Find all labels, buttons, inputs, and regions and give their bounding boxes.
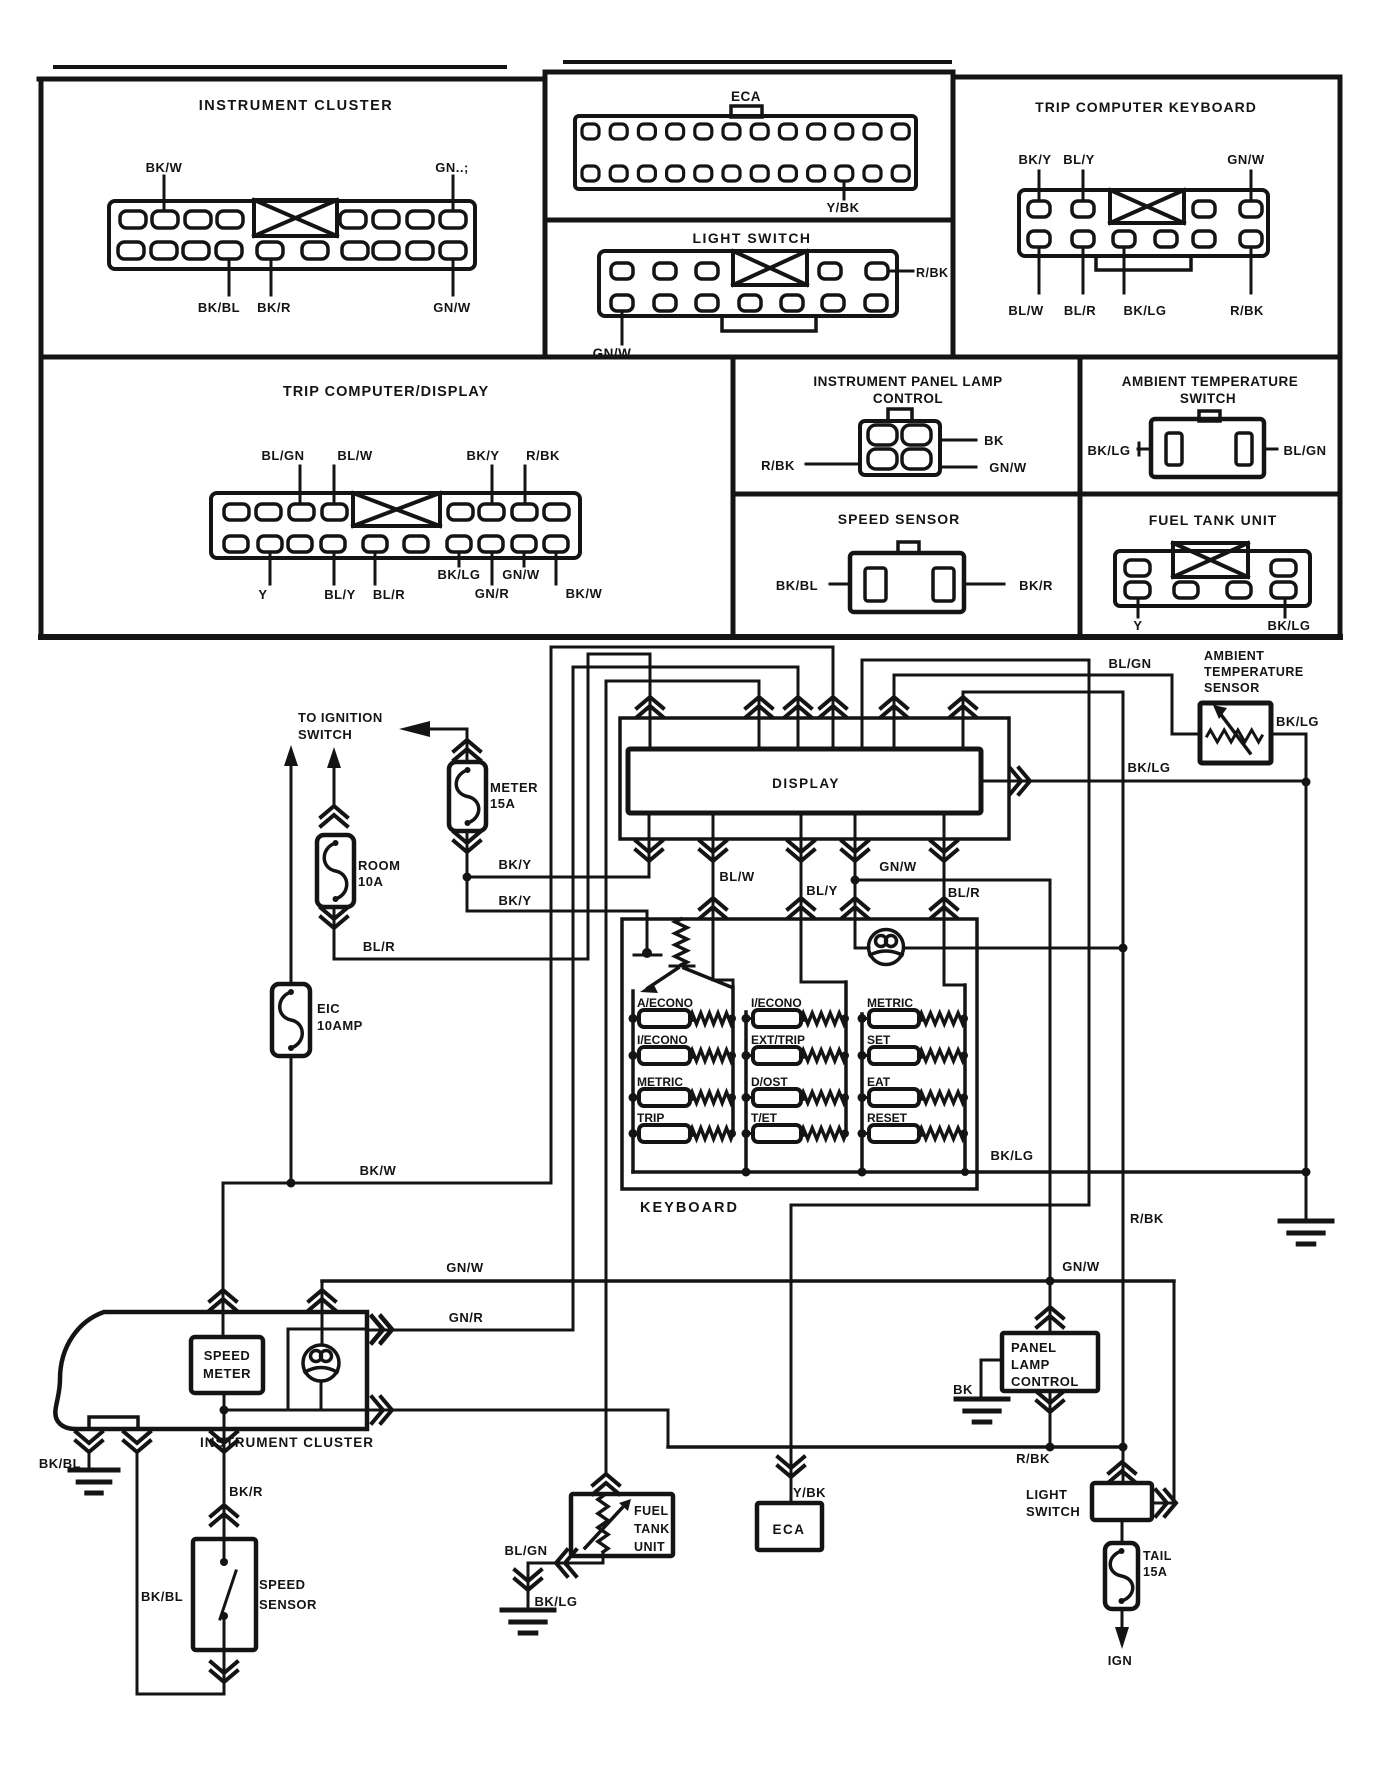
wire lamp left bbox=[855, 947, 869, 950]
wire Y/BK down to ECA bbox=[790, 1205, 793, 1503]
svg-text:KEYBOARD: KEYBOARD bbox=[640, 1200, 739, 1216]
svg-text:BK/LG: BK/LG bbox=[1268, 618, 1311, 633]
lead Y/BK bbox=[843, 181, 846, 199]
keyboard resistor TRIP bbox=[690, 1128, 733, 1139]
connector light switch shell bbox=[599, 251, 897, 316]
trip display pin bottom bbox=[544, 536, 568, 552]
svg-text:METRIC: METRIC bbox=[867, 996, 913, 1010]
wire lamp right to R/BK bbox=[904, 947, 1123, 950]
wire GN/R to display pin bbox=[573, 666, 798, 669]
wire BK/BL long bbox=[136, 1452, 139, 1694]
svg-text:BL/R: BL/R bbox=[1064, 303, 1096, 318]
junction col3 bus bbox=[858, 1168, 867, 1177]
connector chevron cluster BK/BL bbox=[124, 1432, 150, 1452]
ECA pin top 5 bbox=[695, 124, 712, 139]
pin top 4 bbox=[217, 211, 243, 228]
connector chevron ECA bbox=[778, 1457, 804, 1477]
trip display pin top bbox=[256, 504, 281, 520]
keyboard resistor T/ET bbox=[801, 1128, 846, 1139]
ECA pin bottom 2 bbox=[610, 166, 627, 181]
ambient switch shell bbox=[1151, 419, 1264, 477]
display outer box bbox=[620, 718, 1009, 839]
cluster notch bbox=[89, 1417, 138, 1429]
speed sensor pin right bbox=[933, 568, 954, 601]
light switch pin top bbox=[819, 263, 841, 279]
display pin stub Y/BK (no chevron) bbox=[861, 660, 864, 749]
svg-text:GN/W: GN/W bbox=[1062, 1259, 1100, 1274]
chevron display pin BK/W bbox=[820, 697, 846, 717]
thermistor arrow bbox=[1222, 716, 1250, 753]
lead GN.. bbox=[452, 176, 455, 211]
fuse TAIL 15A bbox=[1105, 1543, 1138, 1609]
arrow IGN bbox=[1115, 1627, 1129, 1649]
wire ignition to meter fuse bbox=[428, 728, 467, 731]
svg-text:INSTRUMENT CLUSTER: INSTRUMENT CLUSTER bbox=[199, 98, 394, 114]
ECA pin bottom 5 bbox=[695, 166, 712, 181]
svg-text:BL/R: BL/R bbox=[373, 587, 405, 602]
connector chevron panel lamp top bbox=[1037, 1307, 1063, 1327]
keyboard button RESET bbox=[869, 1125, 919, 1142]
lead R/BK bbox=[806, 463, 860, 466]
keyboard pin bottom bbox=[1240, 231, 1262, 247]
display pin stub BL/R bbox=[649, 654, 652, 749]
wire GN/R from instrument cluster bbox=[367, 1329, 573, 1332]
svg-text:TRIP COMPUTER KEYBOARD: TRIP COMPUTER KEYBOARD bbox=[1035, 99, 1257, 115]
chevron display pin R/BK bbox=[950, 697, 976, 717]
svg-text:TRIP COMPUTER/DISPLAY: TRIP COMPUTER/DISPLAY bbox=[283, 384, 489, 400]
lead Y bbox=[1137, 598, 1140, 617]
svg-text:TRIP: TRIP bbox=[637, 1111, 664, 1125]
svg-text:CONTROL: CONTROL bbox=[1011, 1374, 1079, 1389]
wire speed meter bottom bbox=[223, 1393, 226, 1432]
svg-text:METER: METER bbox=[490, 780, 538, 795]
wire BK/R to speed sensor bbox=[223, 1432, 226, 1562]
wire BK/Y to keyboard bbox=[467, 910, 647, 913]
wire light switch right bbox=[1152, 1502, 1174, 1505]
svg-text:BL/Y: BL/Y bbox=[1063, 152, 1095, 167]
lead GN/W bbox=[1250, 171, 1253, 201]
svg-text:LIGHT SWITCH: LIGHT SWITCH bbox=[692, 230, 811, 246]
light switch pin bottom bbox=[781, 295, 803, 311]
trip display pin bottom bbox=[321, 536, 345, 552]
ECA pin top 1 bbox=[582, 124, 599, 139]
fuel tank unit box bbox=[571, 1494, 673, 1556]
display inner box bbox=[628, 749, 981, 813]
light switch pin bottom bbox=[865, 295, 887, 311]
ECA box bbox=[757, 1503, 822, 1550]
ECA pin bottom 9 bbox=[808, 166, 825, 181]
lead BL/Y bbox=[1082, 171, 1085, 201]
lamp symbol bbox=[869, 930, 904, 965]
ECA pin top 12 bbox=[892, 124, 909, 139]
chevron keyboard BL/R bbox=[931, 898, 957, 918]
svg-text:D/OST: D/OST bbox=[751, 1075, 788, 1089]
connector chevron fuel tank unit bbox=[593, 1474, 619, 1494]
connector chevron instrument cluster BK/W bbox=[210, 1290, 236, 1310]
wire BL/GN down bbox=[527, 1563, 530, 1592]
col2 right bus bbox=[844, 982, 848, 1134]
svg-text:BK/W: BK/W bbox=[566, 586, 603, 601]
svg-text:CONTROL: CONTROL bbox=[873, 391, 943, 406]
lead R/BK bbox=[888, 270, 913, 273]
svg-text:GN..;: GN..; bbox=[435, 160, 469, 175]
svg-text:Y/BK: Y/BK bbox=[793, 1485, 826, 1500]
lead BL/Y bbox=[333, 552, 336, 584]
display pin stub GN/R bbox=[797, 667, 800, 749]
svg-text:GN/W: GN/W bbox=[989, 460, 1027, 475]
border top shadow line bbox=[55, 65, 505, 69]
keyboard resistor A/ECONO bbox=[690, 1013, 733, 1024]
svg-text:BK/BL: BK/BL bbox=[141, 1589, 183, 1604]
display pin stub BL/GN bbox=[893, 675, 896, 749]
chevron display bottom BL/Y bbox=[788, 841, 814, 861]
fuel tank wiper arrow bbox=[585, 1508, 622, 1548]
trip display pin top bbox=[544, 504, 569, 520]
keyboard resistor EAT bbox=[919, 1092, 965, 1103]
keyboard button EAT bbox=[869, 1089, 919, 1106]
junction col2 bus bbox=[742, 1168, 751, 1177]
keyboard BK/Y terminal dot bbox=[642, 948, 652, 958]
svg-text:T/ET: T/ET bbox=[751, 1111, 778, 1125]
connector keyboard shell bbox=[1019, 190, 1268, 256]
svg-text:R/BK: R/BK bbox=[1230, 303, 1264, 318]
chevron display bottom GN/W bbox=[842, 841, 868, 861]
lead GN/W bbox=[621, 311, 624, 344]
display bottom stub GN/W bbox=[854, 813, 857, 919]
wire BK/W horizontal bbox=[223, 1182, 551, 1185]
ECA pin top 2 bbox=[610, 124, 627, 139]
pin bottom 6 bbox=[302, 242, 328, 259]
lead BK/Y bbox=[491, 466, 494, 504]
connector chevron speed sensor bottom bbox=[211, 1662, 237, 1682]
wire lamp return from cluster bbox=[224, 1409, 668, 1412]
lead BL/R bbox=[374, 552, 377, 584]
col1 right bus bbox=[731, 987, 735, 1134]
ECA pin top 10 bbox=[836, 124, 853, 139]
wire BK/W to display pin bbox=[551, 646, 833, 649]
svg-text:R/BK: R/BK bbox=[526, 448, 560, 463]
light switch pin top bbox=[611, 263, 633, 279]
keyboard pin top bbox=[1072, 201, 1094, 217]
divider panel-lamp / ambient switch bbox=[1078, 357, 1083, 637]
wire down to METER fuse bbox=[466, 729, 469, 762]
connector ECA shell bbox=[575, 116, 916, 189]
connector chevron GN/R output bbox=[372, 1317, 392, 1343]
light switch tab bbox=[722, 316, 816, 331]
svg-text:UNIT: UNIT bbox=[634, 1540, 665, 1554]
trip display pin top bbox=[512, 504, 537, 520]
lamp control connector tab bbox=[888, 409, 912, 421]
svg-text:SET: SET bbox=[867, 1033, 891, 1047]
chevron keyboard GN/W bbox=[842, 898, 868, 918]
trip display pin bottom bbox=[363, 536, 387, 552]
svg-text:Y: Y bbox=[1133, 618, 1142, 633]
pin bottom 4 bbox=[216, 242, 242, 259]
connector chevron light switch GN/W bbox=[1156, 1490, 1176, 1516]
wire METER fuse to BK/Y junction bbox=[466, 831, 469, 911]
border bottom of pinout section bbox=[41, 634, 1340, 640]
divider ECA / light switch bbox=[545, 218, 953, 223]
ECA pin top 11 bbox=[864, 124, 881, 139]
keyboard button I/ECONO bbox=[753, 1010, 801, 1027]
svg-text:R/BK: R/BK bbox=[1016, 1451, 1050, 1466]
wire light switch to TAIL fuse bbox=[1121, 1520, 1124, 1543]
svg-text:SPEED SENSOR: SPEED SENSOR bbox=[838, 511, 960, 527]
svg-text:SPEED: SPEED bbox=[259, 1577, 306, 1592]
lead BL/GN bbox=[1264, 448, 1277, 451]
svg-text:BK/LG: BK/LG bbox=[1276, 714, 1319, 729]
keyboard pin top bbox=[1028, 201, 1050, 217]
instrument cluster box bbox=[55, 1312, 367, 1429]
connector chevron cluster GN/W bbox=[309, 1290, 335, 1310]
fuel tank connector shell bbox=[1115, 551, 1310, 606]
keyboard pin bottom bbox=[1193, 231, 1215, 247]
col3 right bus bbox=[963, 985, 967, 1172]
col3 left bus bbox=[860, 1014, 864, 1172]
junction GN/W bbox=[851, 876, 860, 885]
wire to BK/BL ground bbox=[88, 1452, 91, 1470]
display bottom stub BK/Y bbox=[648, 813, 651, 877]
thermistor zigzag bbox=[1207, 730, 1262, 742]
chevron keyboard BL/W bbox=[700, 898, 726, 918]
svg-text:TO IGNITION: TO IGNITION bbox=[298, 710, 383, 725]
svg-text:GN/R: GN/R bbox=[475, 586, 510, 601]
ECA pin bottom 4 bbox=[667, 166, 684, 181]
keyboard resistor I/ECONO bbox=[801, 1013, 846, 1024]
light switch pin bottom bbox=[654, 295, 676, 311]
svg-text:BK/Y: BK/Y bbox=[1018, 152, 1051, 167]
chevron display bottom BL/W bbox=[700, 841, 726, 861]
ambient temperature sensor box bbox=[1200, 703, 1271, 763]
wire BK/BL to speed sensor return bbox=[137, 1693, 224, 1696]
keyboard pin bottom bbox=[1072, 231, 1094, 247]
ECA pin top 9 bbox=[808, 124, 825, 139]
wire EIC fuse to BK/W bbox=[290, 1056, 293, 1183]
wire BK/Y to display bbox=[467, 876, 648, 879]
svg-text:BL/GN: BL/GN bbox=[1284, 443, 1327, 458]
keyboard resistor I/ECONO bbox=[690, 1050, 733, 1061]
keyboard button EXT/TRIP bbox=[753, 1047, 801, 1064]
chevron display pin BL/GN bbox=[881, 697, 907, 717]
junction speed meter bbox=[220, 1406, 229, 1415]
wire Y to display pin bbox=[606, 680, 759, 683]
lead BK/W bbox=[163, 176, 166, 211]
pin top 6 bbox=[373, 211, 399, 228]
wiper right leg bbox=[684, 968, 731, 987]
svg-text:BL/W: BL/W bbox=[1008, 303, 1043, 318]
svg-text:BK/Y: BK/Y bbox=[498, 893, 531, 908]
fuse EIC 10AMP bbox=[272, 984, 310, 1056]
display pin stub BK/W bbox=[832, 647, 835, 749]
wire step down bbox=[667, 1410, 670, 1447]
pin top 1 bbox=[120, 211, 146, 228]
pin bottom 10 bbox=[440, 242, 466, 259]
fuel tank pin bbox=[1271, 582, 1296, 598]
speed sensor connector shell bbox=[850, 553, 964, 612]
pin top 3 bbox=[185, 211, 211, 228]
border top shadow line 2 bbox=[565, 60, 950, 64]
pin bottom 3 bbox=[183, 242, 209, 259]
svg-text:METRIC: METRIC bbox=[637, 1075, 683, 1089]
svg-text:SPEED: SPEED bbox=[204, 1348, 251, 1363]
display pin stub R/BK bbox=[962, 692, 965, 749]
pin top 7 bbox=[407, 211, 433, 228]
keyboard button I/ECONO bbox=[639, 1047, 690, 1064]
svg-text:IGN: IGN bbox=[1108, 1653, 1133, 1668]
junction col3 right bus bbox=[961, 1168, 969, 1176]
trip display pin bottom bbox=[288, 536, 312, 552]
wire arrow2 to ROOM fuse bbox=[333, 764, 336, 806]
svg-text:SENSOR: SENSOR bbox=[1204, 681, 1260, 695]
ECA pin bottom 11 bbox=[864, 166, 881, 181]
keyboard button T/ET bbox=[753, 1125, 801, 1142]
lamp control pin 4 bbox=[902, 449, 931, 469]
light switch pin bottom bbox=[696, 295, 718, 311]
connector chevron cluster output 2 bbox=[372, 1397, 392, 1423]
speed sensor box bbox=[193, 1539, 256, 1650]
svg-text:BL/GN: BL/GN bbox=[1109, 656, 1152, 671]
junction R/BK light switch bbox=[1119, 1443, 1128, 1452]
svg-text:15A: 15A bbox=[490, 796, 515, 811]
svg-text:A/ECONO: A/ECONO bbox=[637, 996, 693, 1010]
svg-text:AMBIENT TEMPERATURE: AMBIENT TEMPERATURE bbox=[1122, 374, 1299, 389]
svg-text:BK/LG: BK/LG bbox=[1088, 443, 1131, 458]
wire into speed meter bbox=[222, 1312, 225, 1337]
chevron display pin GN/R bbox=[785, 697, 811, 717]
trip display pin bottom bbox=[404, 536, 428, 552]
wire to ground bbox=[1305, 1172, 1308, 1221]
wire BK/LG display output bbox=[981, 780, 1306, 783]
junction panel lamp R/BK bbox=[1046, 1443, 1055, 1452]
col1 left bus bbox=[631, 991, 635, 1172]
wire Y/BK feeder right bbox=[862, 659, 1089, 662]
wiper bar bbox=[670, 965, 694, 968]
ECA pin top 6 bbox=[723, 124, 740, 139]
connector instrument cluster shell bbox=[109, 201, 475, 269]
ambient switch pin right bbox=[1236, 433, 1252, 465]
ECA pin bottom 3 bbox=[638, 166, 655, 181]
lead BK/R bbox=[270, 259, 273, 295]
svg-text:DISPLAY: DISPLAY bbox=[772, 776, 840, 791]
junction lamp R/BK bbox=[1119, 944, 1128, 953]
svg-text:BL/Y: BL/Y bbox=[806, 883, 838, 898]
display pin stub Y bbox=[758, 681, 761, 749]
wire BK ground stub bbox=[981, 1359, 1002, 1362]
connector chevron cluster BK/R bbox=[211, 1432, 237, 1452]
keyboard pin bottom bbox=[1155, 231, 1177, 247]
lead Y bbox=[269, 552, 272, 584]
connector chevron BK/LG ground bbox=[515, 1570, 541, 1590]
ground BK/BL bbox=[70, 1470, 118, 1493]
trip display pin top bbox=[224, 504, 249, 520]
svg-text:TAIL: TAIL bbox=[1143, 1549, 1172, 1563]
trip display pin bottom bbox=[447, 536, 471, 552]
fuel tank pin bbox=[1227, 582, 1251, 598]
ground BK/LG right bbox=[1280, 1221, 1332, 1244]
lamp control pin 3 bbox=[868, 449, 897, 469]
trip display pin bottom bbox=[224, 536, 248, 552]
svg-text:TEMPERATURE: TEMPERATURE bbox=[1204, 665, 1304, 679]
speed sensor pin left bbox=[865, 568, 886, 601]
chevron display pin Y bbox=[746, 697, 772, 717]
ground BK bbox=[956, 1399, 1008, 1422]
pin bottom 9 bbox=[407, 242, 433, 259]
lamp control pin 2 bbox=[902, 425, 931, 445]
trip display pin top bbox=[479, 504, 504, 520]
svg-text:BL/W: BL/W bbox=[337, 448, 372, 463]
svg-text:PANEL: PANEL bbox=[1011, 1340, 1057, 1355]
svg-text:BK/R: BK/R bbox=[257, 300, 291, 315]
wire BK/W down to instrument cluster bbox=[222, 1183, 225, 1337]
svg-text:BK/Y: BK/Y bbox=[498, 857, 531, 872]
wire GN/W right bbox=[855, 879, 1050, 882]
ECA pin bottom 12 bbox=[892, 166, 909, 181]
svg-text:GN/W: GN/W bbox=[502, 567, 540, 582]
light switch pin top bbox=[654, 263, 676, 279]
wire into ambient sensor bbox=[1172, 733, 1200, 736]
wire GN/R inner drop bbox=[287, 1329, 290, 1410]
svg-text:Y: Y bbox=[258, 587, 267, 602]
keyboard button TRIP bbox=[639, 1125, 690, 1142]
wire speed sensor bottom bbox=[223, 1650, 226, 1694]
svg-text:BK/R: BK/R bbox=[1019, 578, 1053, 593]
lead BL/R bbox=[1082, 247, 1085, 293]
divider trip-display / panel-lamp bbox=[731, 357, 736, 637]
display bottom stub BL/Y bbox=[800, 813, 803, 919]
fuel tank pin bbox=[1125, 582, 1150, 598]
light switch pin bottom bbox=[739, 295, 761, 311]
border top - trip computer keyboard box bbox=[953, 75, 1340, 80]
keyboard wiper zigzag bbox=[675, 919, 687, 965]
trip display pin top bbox=[448, 504, 473, 520]
wire GN/W down to light switch bbox=[1173, 1281, 1176, 1503]
junction GN/W panel lamp bbox=[1046, 1277, 1055, 1286]
keyboard pin bottom bbox=[1028, 231, 1050, 247]
lead BK/W bbox=[555, 552, 558, 584]
svg-text:BL/GN: BL/GN bbox=[262, 448, 305, 463]
wire GN/W to lamp bbox=[854, 880, 857, 948]
lead BK/R bbox=[964, 583, 1004, 586]
lead BL/W bbox=[333, 466, 336, 504]
wiper left leg bbox=[648, 968, 678, 988]
chevron display bottom BL/R bbox=[931, 841, 957, 861]
svg-text:BL/W: BL/W bbox=[719, 869, 754, 884]
lead GN/W bbox=[523, 552, 526, 566]
svg-text:GN/W: GN/W bbox=[593, 346, 632, 361]
connector chevron light switch top bbox=[1109, 1462, 1135, 1482]
speed sensor tab bbox=[898, 542, 919, 553]
svg-text:10A: 10A bbox=[358, 874, 383, 889]
wire fuel tank output bbox=[602, 1554, 605, 1563]
lamp control pin 1 bbox=[868, 425, 897, 445]
speed sensor switch bbox=[220, 1571, 236, 1619]
connector chevron METER fuse bottom bbox=[454, 832, 480, 852]
svg-text:BL/R: BL/R bbox=[948, 885, 980, 900]
pin bottom 2 bbox=[151, 242, 177, 259]
wire to ignition (arrow up 2) bbox=[327, 747, 341, 768]
pin top 2 bbox=[152, 211, 178, 228]
svg-text:INSTRUMENT PANEL LAMP: INSTRUMENT PANEL LAMP bbox=[813, 374, 1002, 389]
lead GN/R bbox=[491, 552, 494, 584]
svg-text:BK/LG: BK/LG bbox=[535, 1594, 578, 1609]
pin bottom 1 bbox=[118, 242, 144, 259]
svg-text:BL/Y: BL/Y bbox=[324, 587, 356, 602]
trip display pin top bbox=[289, 504, 314, 520]
keyboard button A/ECONO bbox=[639, 1010, 690, 1027]
pin top 8 bbox=[440, 211, 466, 228]
ECA pin top 3 bbox=[638, 124, 655, 139]
lead R/BK bbox=[1250, 247, 1253, 293]
